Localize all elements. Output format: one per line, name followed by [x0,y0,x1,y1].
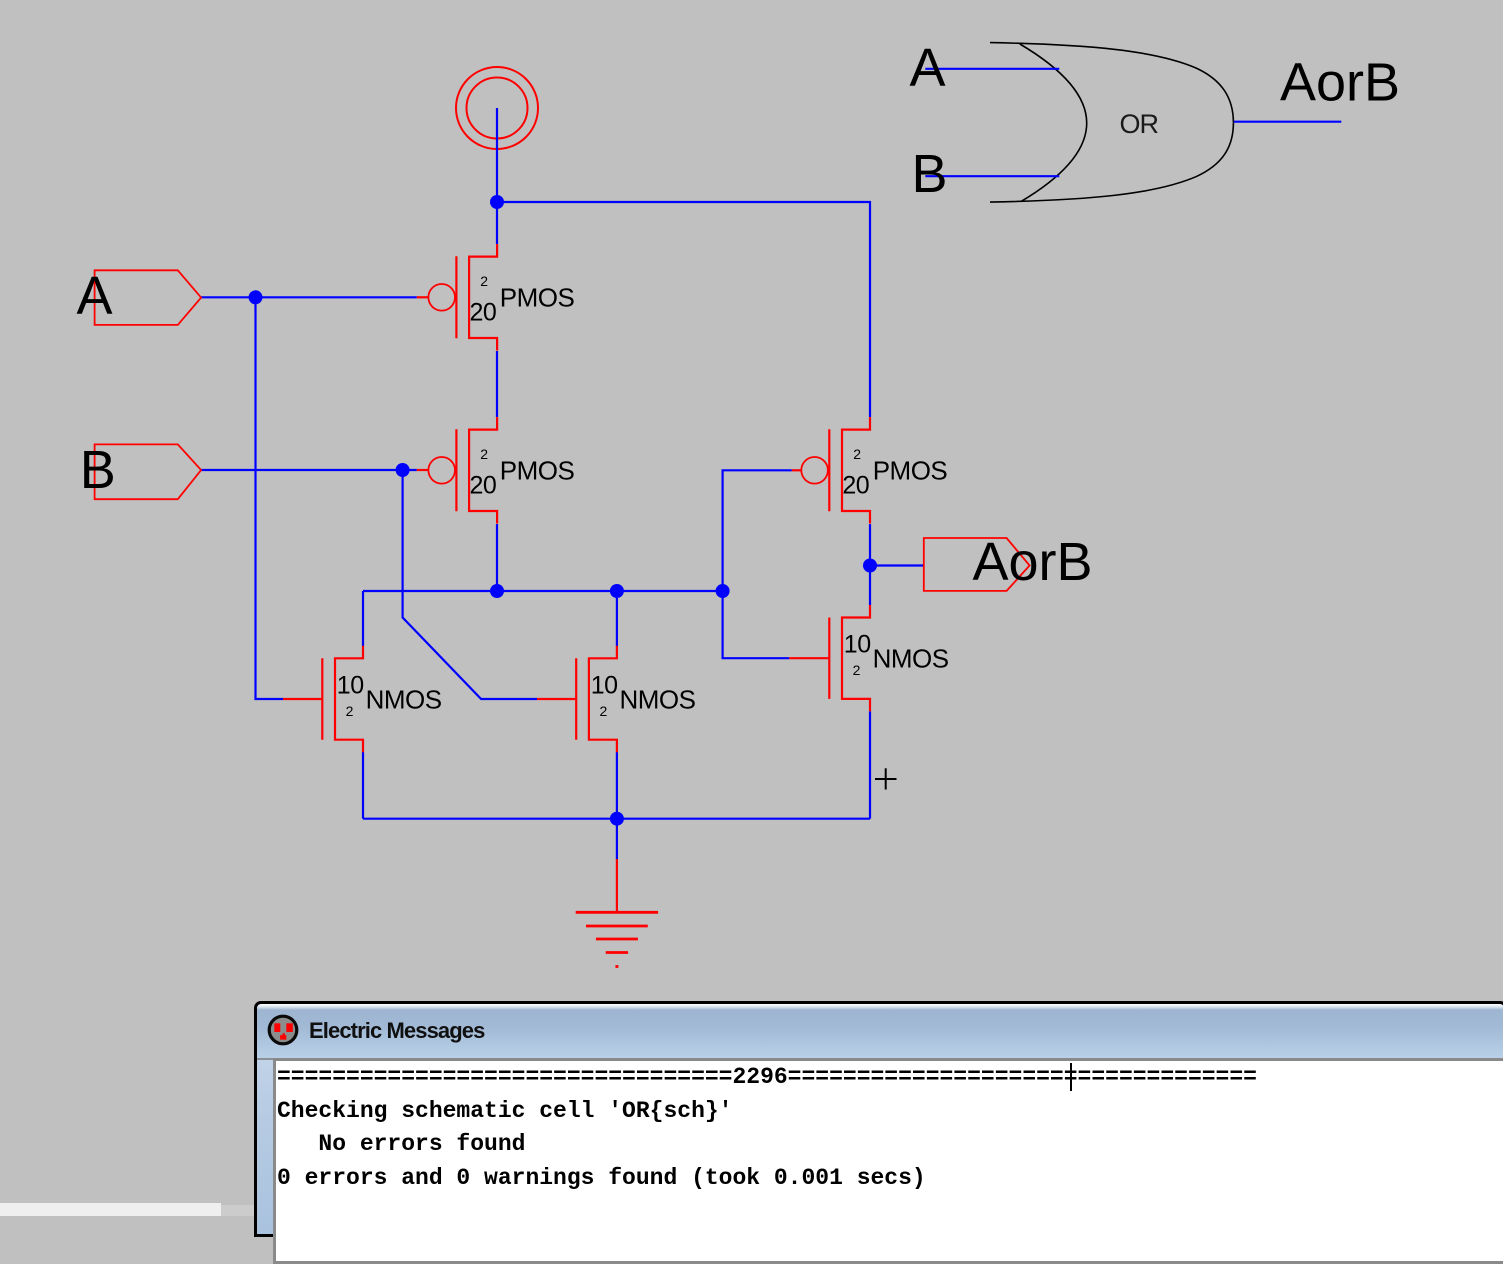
node A [249,290,263,304]
pin AorB [924,538,1030,591]
svg-text:B: B [80,440,116,500]
svg-text:A: A [910,38,946,98]
svg-text:PMOS: PMOS [873,456,948,486]
svg-text:2: 2 [853,662,861,678]
wire node to PMOS3 gate [723,470,792,591]
wire node B diagonal to NMOS2 gate [403,470,537,699]
transistor P2 PMOS [417,417,497,523]
node mid bus right [716,584,730,598]
svg-text:20: 20 [470,471,497,499]
svg-text:NMOS: NMOS [873,644,949,674]
svg-text:NMOS: NMOS [366,684,442,714]
svg-text:10: 10 [337,672,364,700]
svg-text:PMOS: PMOS [500,456,575,486]
wire top bus to right trunk [497,202,870,417]
wire PMOS2 drain to mid bus [496,524,498,591]
pin B [95,444,202,499]
transistor P3 PMOS [792,417,870,523]
transistor N2 NMOS [537,646,617,752]
svg-text:A: A [77,266,113,326]
wire NMOS1 source to bottom bus [362,752,364,819]
or-gate input A wire [925,68,1059,70]
node output [863,559,877,573]
node B [396,463,410,477]
svg-text:2: 2 [480,273,488,289]
node dot VDD [490,195,504,209]
svg-text:2: 2 [600,703,608,719]
transistor N1 NMOS [283,646,363,752]
pin A [95,270,202,325]
svg-text:AorB: AorB [1280,53,1400,113]
or-gate output wire [1234,121,1342,123]
wire bottom bus to ground [616,819,618,859]
svg-text:PMOS: PMOS [500,283,575,313]
wire output to pin AorB [870,564,924,566]
wire mid bus to NMOS2 drain [616,591,618,646]
or-gate input B wire [925,175,1059,177]
cursor cross [875,768,897,789]
text caret [1070,1063,1072,1091]
ground [576,859,658,967]
wire bottom bus [363,818,870,820]
wire pin A to PMOS1 gate [201,296,417,298]
svg-text:B: B [912,144,948,204]
node mid bus left [490,584,504,598]
wire NMOS3 source down [869,712,871,819]
node mid bus center [610,584,624,598]
or-gate icon [990,43,1233,203]
node ground [610,812,624,826]
svg-text:AorB: AorB [973,532,1093,592]
strip bottom left [0,1203,221,1216]
transistor N3 NMOS [789,605,870,711]
wire power stem [496,108,498,202]
wire NMOS2 source to bottom bus [616,752,618,819]
svg-text:OR: OR [1120,109,1159,139]
power symbol VDD [456,67,538,149]
svg-text:NMOS: NMOS [620,684,696,714]
svg-text:2: 2 [853,446,861,462]
wire pin B to PMOS2 gate [201,469,417,471]
wire node A down to NMOS1 gate [256,297,284,699]
svg-text:2: 2 [346,703,354,719]
svg-text:20: 20 [842,471,869,499]
wire mid bus to NMOS1 drain [362,591,364,646]
svg-text:2: 2 [480,446,488,462]
wire PMOS1 drain to PMOS2 source [496,351,498,417]
svg-text:20: 20 [470,298,497,326]
wire PMOS3 drain to NMOS3 drain [869,524,871,605]
wire VDD to PMOS1 source [496,202,498,244]
electric icon [265,1012,301,1048]
transistor P1 PMOS [417,244,497,350]
messages window [254,1001,1503,1237]
wire mid bus [363,590,723,592]
wire node to NMOS3 gate [723,591,790,658]
svg-text:10: 10 [844,631,871,659]
svg-text:10: 10 [591,672,618,700]
